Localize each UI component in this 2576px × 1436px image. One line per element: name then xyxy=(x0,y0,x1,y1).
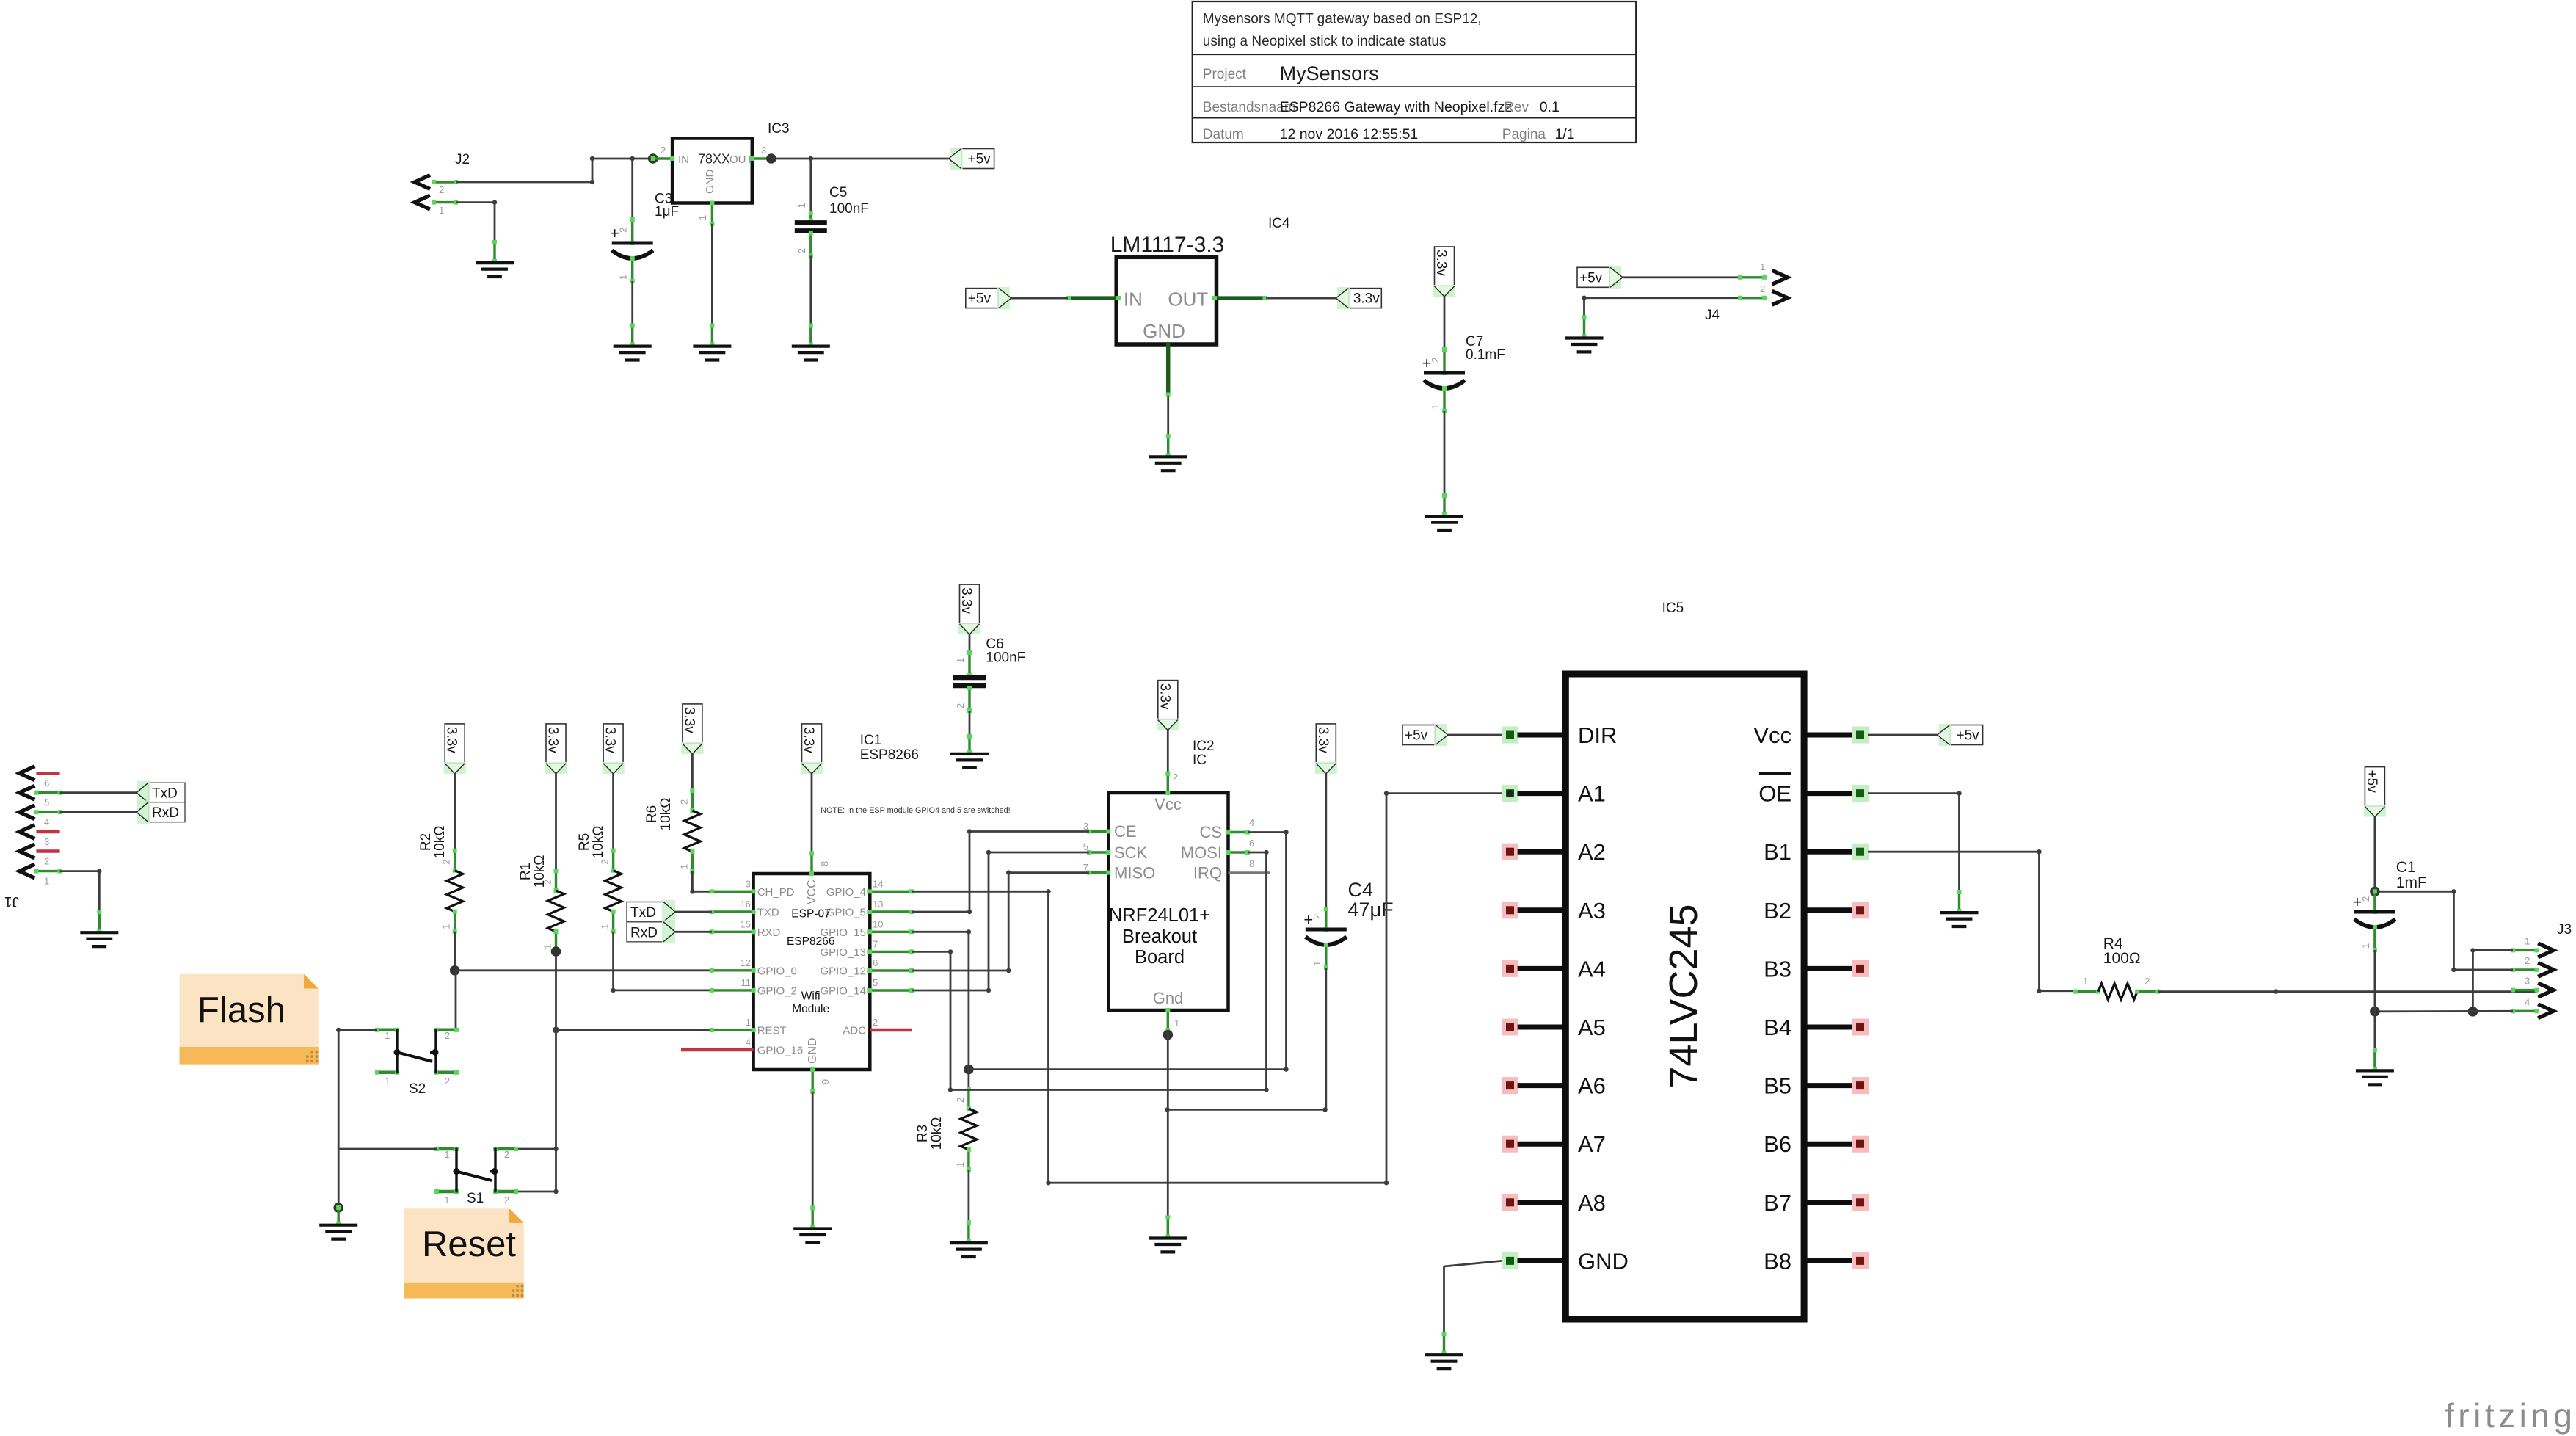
svg-text:0.1: 0.1 xyxy=(1540,99,1560,115)
svg-text:1: 1 xyxy=(1174,1018,1179,1029)
svg-text:1μF: 1μF xyxy=(655,204,679,220)
svg-text:MOSI: MOSI xyxy=(1181,844,1222,862)
svg-text:C4: C4 xyxy=(1348,879,1374,901)
svg-text:1mF: 1mF xyxy=(2396,874,2427,891)
svg-text:1: 1 xyxy=(618,275,629,280)
svg-text:J1: J1 xyxy=(4,893,19,909)
svg-text:2: 2 xyxy=(955,703,966,708)
svg-text:10kΩ: 10kΩ xyxy=(929,1117,945,1150)
svg-text:3.3v: 3.3v xyxy=(603,727,618,753)
svg-text:2: 2 xyxy=(796,248,807,253)
svg-text:GPIO_14: GPIO_14 xyxy=(820,985,866,998)
svg-text:3.3v: 3.3v xyxy=(801,727,816,753)
svg-text:C5: C5 xyxy=(829,185,847,200)
svg-text:OUT: OUT xyxy=(729,153,753,166)
svg-text:5: 5 xyxy=(873,977,878,988)
svg-text:B1: B1 xyxy=(1764,839,1791,865)
svg-text:GPIO_2: GPIO_2 xyxy=(757,984,797,997)
svg-text:4: 4 xyxy=(2525,996,2530,1007)
svg-text:1: 1 xyxy=(445,1150,450,1160)
svg-text:7: 7 xyxy=(1083,862,1088,873)
svg-text:NRF24L01+: NRF24L01+ xyxy=(1109,905,1210,926)
svg-text:GPIO_16: GPIO_16 xyxy=(757,1045,804,1057)
svg-text:A2: A2 xyxy=(1578,839,1606,865)
svg-text:+5v: +5v xyxy=(1957,728,1980,744)
svg-text:11: 11 xyxy=(741,977,752,988)
svg-text:VCC: VCC xyxy=(806,880,818,904)
svg-text:4: 4 xyxy=(746,1037,751,1048)
svg-text:Project: Project xyxy=(1203,67,1247,82)
svg-text:2: 2 xyxy=(618,228,629,233)
svg-text:13: 13 xyxy=(873,899,883,910)
svg-text:GPIO_13: GPIO_13 xyxy=(820,946,866,959)
svg-text:4: 4 xyxy=(44,816,49,827)
svg-text:1: 1 xyxy=(385,1031,390,1041)
svg-text:IC3: IC3 xyxy=(768,121,790,137)
svg-text:GPIO_5: GPIO_5 xyxy=(826,907,866,919)
svg-text:3: 3 xyxy=(746,878,751,889)
svg-text:3.3v: 3.3v xyxy=(1353,291,1380,307)
svg-text:0.1mF: 0.1mF xyxy=(1466,347,1505,363)
svg-text:GPIO_0: GPIO_0 xyxy=(757,965,797,977)
svg-text:2: 2 xyxy=(1173,772,1178,783)
svg-text:using a Neopixel stick to indi: using a Neopixel stick to indicate statu… xyxy=(1203,34,1447,49)
svg-text:12 nov 2016 12:55:51: 12 nov 2016 12:55:51 xyxy=(1280,126,1419,142)
svg-text:100nF: 100nF xyxy=(986,650,1025,666)
svg-text:IN: IN xyxy=(1124,288,1143,310)
svg-text:1: 1 xyxy=(445,1195,450,1205)
svg-text:1: 1 xyxy=(44,876,49,887)
svg-text:2: 2 xyxy=(445,1076,450,1087)
svg-text:ESP8266: ESP8266 xyxy=(787,935,835,948)
svg-text:2: 2 xyxy=(1430,358,1441,363)
svg-text:GND: GND xyxy=(1143,320,1185,342)
svg-text:B3: B3 xyxy=(1764,956,1791,982)
svg-text:Datum: Datum xyxy=(1203,127,1244,142)
svg-text:A7: A7 xyxy=(1578,1131,1606,1157)
svg-text:3.3v: 3.3v xyxy=(545,727,561,753)
svg-text:CS: CS xyxy=(1199,823,1222,841)
svg-text:GPIO_12: GPIO_12 xyxy=(820,965,866,978)
svg-text:RxD: RxD xyxy=(152,805,179,821)
svg-text:8: 8 xyxy=(1249,858,1254,869)
svg-text:16: 16 xyxy=(741,899,751,910)
svg-text:10kΩ: 10kΩ xyxy=(532,855,547,888)
svg-text:DIR: DIR xyxy=(1578,722,1617,748)
svg-text:3.3v: 3.3v xyxy=(1315,727,1331,753)
svg-text:IC2: IC2 xyxy=(1193,739,1215,754)
svg-text:2: 2 xyxy=(2525,955,2530,966)
svg-text:GND: GND xyxy=(704,170,716,195)
svg-text:MISO: MISO xyxy=(1114,864,1155,882)
svg-text:3.3v: 3.3v xyxy=(958,587,974,614)
svg-text:1: 1 xyxy=(439,205,444,216)
svg-text:74LVC245: 74LVC245 xyxy=(1662,904,1706,1088)
svg-text:2: 2 xyxy=(955,1098,966,1103)
svg-text:2: 2 xyxy=(439,184,444,195)
svg-text:1: 1 xyxy=(1760,261,1765,272)
svg-text:1: 1 xyxy=(542,944,553,949)
svg-text:2: 2 xyxy=(445,1031,450,1041)
svg-text:OE: OE xyxy=(1758,781,1791,807)
svg-text:R6: R6 xyxy=(644,805,660,823)
svg-text:10kΩ: 10kΩ xyxy=(658,798,674,831)
svg-text:5: 5 xyxy=(1083,841,1088,852)
svg-text:+5v: +5v xyxy=(968,291,992,307)
svg-text:RXD: RXD xyxy=(757,926,781,939)
svg-text:A8: A8 xyxy=(1578,1190,1606,1216)
svg-text:12: 12 xyxy=(741,957,751,968)
svg-text:2: 2 xyxy=(661,145,666,156)
svg-text:3.3v: 3.3v xyxy=(444,727,459,753)
svg-text:B7: B7 xyxy=(1764,1190,1791,1216)
svg-text:Flash: Flash xyxy=(197,990,285,1030)
svg-text:+5v: +5v xyxy=(1405,728,1428,744)
svg-text:1: 1 xyxy=(955,1162,966,1167)
svg-text:fritzing: fritzing xyxy=(2445,1396,2576,1435)
svg-text:2: 2 xyxy=(504,1150,509,1160)
svg-text:15: 15 xyxy=(741,918,751,929)
svg-text:R1: R1 xyxy=(518,863,534,880)
svg-text:GND: GND xyxy=(1578,1248,1629,1274)
svg-text:+5v: +5v xyxy=(2364,770,2379,794)
svg-text:SCK: SCK xyxy=(1114,844,1148,862)
svg-text:B8: B8 xyxy=(1764,1248,1791,1274)
svg-text:2: 2 xyxy=(2144,976,2150,987)
svg-text:6: 6 xyxy=(1249,838,1254,849)
svg-text:A3: A3 xyxy=(1578,898,1606,924)
svg-text:IRQ: IRQ xyxy=(1193,864,1222,882)
svg-text:1: 1 xyxy=(796,203,807,208)
svg-text:+5v: +5v xyxy=(1579,270,1603,286)
svg-text:3.3v: 3.3v xyxy=(1157,683,1172,710)
svg-text:RxD: RxD xyxy=(630,925,658,940)
svg-text:OUT: OUT xyxy=(1168,288,1208,310)
svg-text:C1: C1 xyxy=(2396,859,2416,876)
svg-text:J3: J3 xyxy=(2557,922,2572,938)
svg-text:2: 2 xyxy=(600,859,611,864)
svg-text:10kΩ: 10kΩ xyxy=(432,826,448,859)
svg-text:IC: IC xyxy=(1193,753,1207,768)
svg-text:MySensors: MySensors xyxy=(1280,62,1379,84)
svg-text:J4: J4 xyxy=(1705,308,1720,323)
svg-text:100nF: 100nF xyxy=(829,201,869,217)
svg-text:7: 7 xyxy=(873,938,878,949)
svg-text:Vcc: Vcc xyxy=(1753,722,1791,748)
svg-text:2: 2 xyxy=(504,1195,509,1205)
svg-text:10: 10 xyxy=(873,918,883,929)
svg-text:B5: B5 xyxy=(1764,1073,1791,1099)
svg-text:2: 2 xyxy=(2360,896,2371,902)
svg-text:1/1: 1/1 xyxy=(1554,126,1574,142)
svg-text:S1: S1 xyxy=(467,1191,484,1206)
svg-text:2: 2 xyxy=(44,856,49,867)
svg-text:Mysensors MQTT gateway based o: Mysensors MQTT gateway based on ESP12, xyxy=(1203,12,1482,27)
svg-text:1: 1 xyxy=(600,924,611,929)
svg-text:1: 1 xyxy=(2083,976,2088,987)
svg-text:B6: B6 xyxy=(1764,1131,1791,1157)
svg-text:Module: Module xyxy=(792,1003,829,1015)
svg-text:1: 1 xyxy=(697,215,708,220)
svg-text:TXD: TXD xyxy=(757,907,779,919)
svg-text:Wifi: Wifi xyxy=(801,990,821,1003)
svg-text:A5: A5 xyxy=(1578,1015,1606,1040)
svg-text:A6: A6 xyxy=(1578,1073,1606,1099)
svg-text:R5: R5 xyxy=(577,833,592,851)
svg-text:1: 1 xyxy=(2525,935,2530,946)
svg-text:IC4: IC4 xyxy=(1268,216,1290,231)
svg-text:14: 14 xyxy=(873,878,883,889)
svg-text:CH_PD: CH_PD xyxy=(757,886,795,899)
svg-text:10kΩ: 10kΩ xyxy=(591,826,606,859)
svg-text:9: 9 xyxy=(820,1079,831,1084)
svg-text:2: 2 xyxy=(1760,283,1765,294)
svg-text:1: 1 xyxy=(385,1076,390,1087)
svg-text:3.3v: 3.3v xyxy=(681,707,696,733)
svg-text:TxD: TxD xyxy=(630,905,656,921)
svg-text:1: 1 xyxy=(441,924,452,929)
svg-text:4: 4 xyxy=(1249,817,1254,828)
svg-text:REST: REST xyxy=(757,1025,787,1037)
svg-text:1: 1 xyxy=(955,658,966,663)
svg-text:1: 1 xyxy=(678,864,689,869)
svg-text:TxD: TxD xyxy=(152,786,178,802)
svg-text:LM1117-3.3: LM1117-3.3 xyxy=(1110,233,1225,257)
svg-text:5: 5 xyxy=(44,797,49,808)
svg-text:ESP8266: ESP8266 xyxy=(860,747,919,763)
svg-text:Vcc: Vcc xyxy=(1154,795,1182,813)
svg-text:A1: A1 xyxy=(1578,781,1606,807)
svg-text:2: 2 xyxy=(441,859,452,864)
svg-text:8: 8 xyxy=(819,861,830,866)
svg-text:B2: B2 xyxy=(1764,898,1791,924)
svg-text:6: 6 xyxy=(44,777,49,788)
svg-text:A4: A4 xyxy=(1578,956,1606,982)
svg-text:R2: R2 xyxy=(418,833,434,851)
svg-text:R3: R3 xyxy=(915,1125,931,1142)
svg-text:B4: B4 xyxy=(1764,1015,1791,1040)
svg-text:ESP-07: ESP-07 xyxy=(791,907,830,920)
svg-text:ADC: ADC xyxy=(843,1025,866,1037)
svg-text:ESP8266 Gateway with Neopixel.: ESP8266 Gateway with Neopixel.fzz xyxy=(1280,99,1513,115)
svg-text:3: 3 xyxy=(1083,821,1088,832)
svg-text:3: 3 xyxy=(2525,976,2530,987)
svg-text:Pagina: Pagina xyxy=(1502,127,1546,142)
svg-text:Reset: Reset xyxy=(422,1225,516,1264)
svg-text:IN: IN xyxy=(678,153,689,166)
svg-text:100Ω: 100Ω xyxy=(2103,950,2141,967)
svg-text:+5v: +5v xyxy=(968,152,992,167)
svg-text:Gnd: Gnd xyxy=(1153,989,1184,1007)
svg-text:6: 6 xyxy=(873,957,878,968)
svg-text:GPIO_4: GPIO_4 xyxy=(826,886,866,899)
svg-text:3: 3 xyxy=(761,145,766,156)
svg-text:2: 2 xyxy=(873,1017,878,1028)
svg-text:2: 2 xyxy=(678,799,689,805)
svg-text:78XX: 78XX xyxy=(698,152,730,167)
svg-text:GND: GND xyxy=(807,1037,819,1064)
svg-text:IC1: IC1 xyxy=(860,733,882,748)
svg-text:S2: S2 xyxy=(409,1081,426,1097)
svg-text:1: 1 xyxy=(746,1017,751,1028)
svg-text:Board: Board xyxy=(1135,947,1185,968)
svg-text:3.3v: 3.3v xyxy=(1433,250,1449,276)
svg-text:2: 2 xyxy=(1311,914,1322,919)
svg-text:Rev: Rev xyxy=(1504,100,1529,115)
svg-text:Breakout: Breakout xyxy=(1122,926,1197,947)
svg-text:J2: J2 xyxy=(455,152,470,167)
svg-text:IC5: IC5 xyxy=(1662,601,1684,616)
svg-text:CE: CE xyxy=(1114,822,1137,841)
svg-text:1: 1 xyxy=(2360,943,2371,949)
svg-text:3: 3 xyxy=(44,836,49,847)
svg-text:NOTE: In the ESP module GPIO4: NOTE: In the ESP module GPIO4 and 5 are … xyxy=(821,806,1010,815)
svg-text:1: 1 xyxy=(1430,405,1441,410)
svg-text:1: 1 xyxy=(1311,961,1322,966)
